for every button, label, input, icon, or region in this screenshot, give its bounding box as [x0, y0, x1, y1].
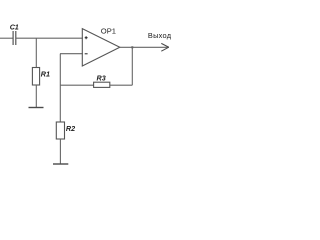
svg-text:OP1: OP1 — [101, 27, 116, 36]
resistor R1 — [32, 68, 39, 86]
wire junction to R1 — [35, 38, 37, 67]
wire feedback left vertical — [59, 54, 61, 122]
capacitor C1 — [13, 31, 16, 45]
arrow head output — [161, 43, 169, 51]
op-amp plus marker — [85, 36, 88, 39]
wire C1 to op-amp + input — [16, 37, 83, 39]
resistor R3 — [94, 82, 110, 87]
wire R2 to ground — [59, 139, 61, 164]
wire feedback right vertical — [131, 47, 133, 85]
wire output — [120, 46, 169, 48]
wire R1 to ground — [35, 85, 37, 107]
svg-text:R1: R1 — [41, 69, 50, 78]
resistor R2 — [56, 122, 64, 139]
wire inverting input — [60, 53, 83, 55]
wire R3 row right — [110, 84, 133, 86]
wire R3 row left — [60, 84, 94, 86]
svg-text:R2: R2 — [66, 124, 75, 133]
ground 2 — [53, 163, 68, 165]
svg-text:R3: R3 — [97, 73, 106, 82]
svg-text:C1: C1 — [10, 22, 19, 31]
op-amp U1 triangle — [82, 29, 120, 66]
op-amp minus marker — [85, 53, 88, 55]
svg-text:Выход: Выход — [148, 31, 172, 40]
wire input left — [0, 37, 13, 39]
ground 1 — [29, 107, 44, 109]
junction output/feedback — [131, 46, 133, 48]
